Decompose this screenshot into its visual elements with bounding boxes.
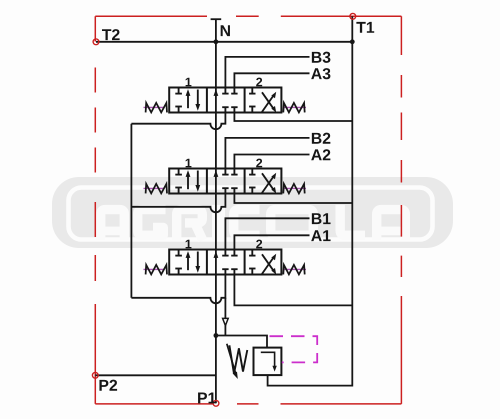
valve section 1: position 2 cell (crossed arrows + blocked ports) [249,88,276,113]
wire: work port B2 riser [225,138,309,169]
node: T2 line / T rail junction [350,39,355,44]
relief valve pilot line (magenta dashed) [270,336,318,362]
valve section 2: position 1 cell symbols (arrows + blocked ports) [175,169,200,194]
valve section 3: position label 2 [256,240,262,249]
wire: work port B3 riser [225,57,309,88]
wire: work port A2 riser [234,155,309,169]
wire: main pressure/neutral line N -> P1 [215,19,217,403]
wire: section 1 tank drain to T rail [234,113,352,122]
valve section 1: left return spring [146,103,167,113]
valve section 3: centre cell (open centre arrow + blocked A/B ports) [214,250,238,275]
valve section 3: left return spring [146,265,167,275]
wire: P2 line [95,374,216,376]
wire: section 3 parallel feed line with crossover hop [131,275,225,304]
flow direction chevron on feed riser [223,318,229,325]
wire: work port B1 riser [225,218,309,249]
valve section 2: left return spring (magenta underprint) [144,187,164,189]
relief valve adjustment arrow [227,344,236,375]
valve section 3: position 2 cell (crossed arrows + blocked ports) [249,250,276,275]
valve section 3: spool box [169,250,281,275]
wire: T1 return rail down right side and relief outlet return [268,16,353,385]
valve section 3: position 1 cell symbols (arrows + blocked ports) [175,250,200,275]
port label A3 [311,68,330,79]
valve section 1: centre cell (open centre arrow + blocked A/B ports) [214,88,238,113]
wire: section 2 tank drain to T rail [234,194,352,204]
wire: work port A1 riser [234,235,309,249]
wire: left parallel feed rail [130,124,132,298]
port label N [221,25,230,36]
port label T2 [102,29,120,40]
port label T1 [356,22,374,33]
valve block boundary, bottom edge [95,403,401,405]
port T2 terminal [93,39,99,45]
valve section 2: left return spring [146,184,167,194]
port label B1 [312,213,331,224]
watermark text AGRICOLA [101,210,125,241]
valve section 1: position label 2 [256,78,262,87]
valve section 2: position 2 cell (crossed arrows + blocked ports) [249,169,276,194]
valve block boundary, right edge [400,16,402,404]
valve section 1: right return spring (magenta underprint) [285,106,307,108]
relief valve internal flow arrow [261,352,277,371]
port T1 terminal [350,13,356,19]
valve section 1: right return spring [283,103,304,113]
relief valve body [254,348,282,376]
node: relief inlet junction [214,333,219,338]
port label P2 [99,380,117,391]
port label B2 [312,133,331,144]
wire: pump feed riser to relief junction [224,298,226,336]
valve block boundary, left edge [94,16,96,404]
watermark inner border [69,188,433,240]
valve section 3: left return spring (magenta underprint) [144,268,164,270]
wire: section 1 parallel feed line with crossover hop [131,113,225,130]
port label B3 [312,52,331,63]
wire: T2 top return line [96,41,352,43]
valve section 1: left return spring (magenta underprint) [144,106,164,108]
valve section 3: right return spring [283,265,304,275]
wire: section 3 tank drain to T rail [234,275,352,306]
port label P1 [198,393,216,404]
relief valve spring [229,345,247,374]
port P2 terminal [92,372,98,378]
wire: relief valve inlet branch [216,336,267,348]
valve section 3: right return spring (magenta underprint) [285,268,307,270]
port P1 terminal [213,400,219,406]
valve section 1: spool box [169,88,281,113]
valve section 2: right return spring [283,184,304,194]
valve section 2: position label 1 [186,159,192,168]
valve section 2: position label 2 [256,159,262,168]
valve section 2: centre cell (open centre arrow + blocked A/B ports) [214,169,238,194]
valve section 2: spool box [169,169,281,194]
wire: work port A3 riser [234,73,309,87]
watermark band [52,177,453,248]
valve block boundary (red dashed), top edge [95,16,401,404]
node: N / T2 junction [214,39,219,44]
valve section 2: right return spring (magenta underprint) [285,187,307,189]
port N cap tick [211,18,222,20]
wire: section 2 parallel feed line with crossover hop [131,194,225,213]
valve section 1: position label 1 [186,78,192,87]
valve section 3: position label 1 [186,240,192,249]
port label A1 [311,230,330,241]
port label A2 [311,149,330,160]
valve section 1: position 1 cell symbols (arrows + blocked ports) [175,88,200,113]
